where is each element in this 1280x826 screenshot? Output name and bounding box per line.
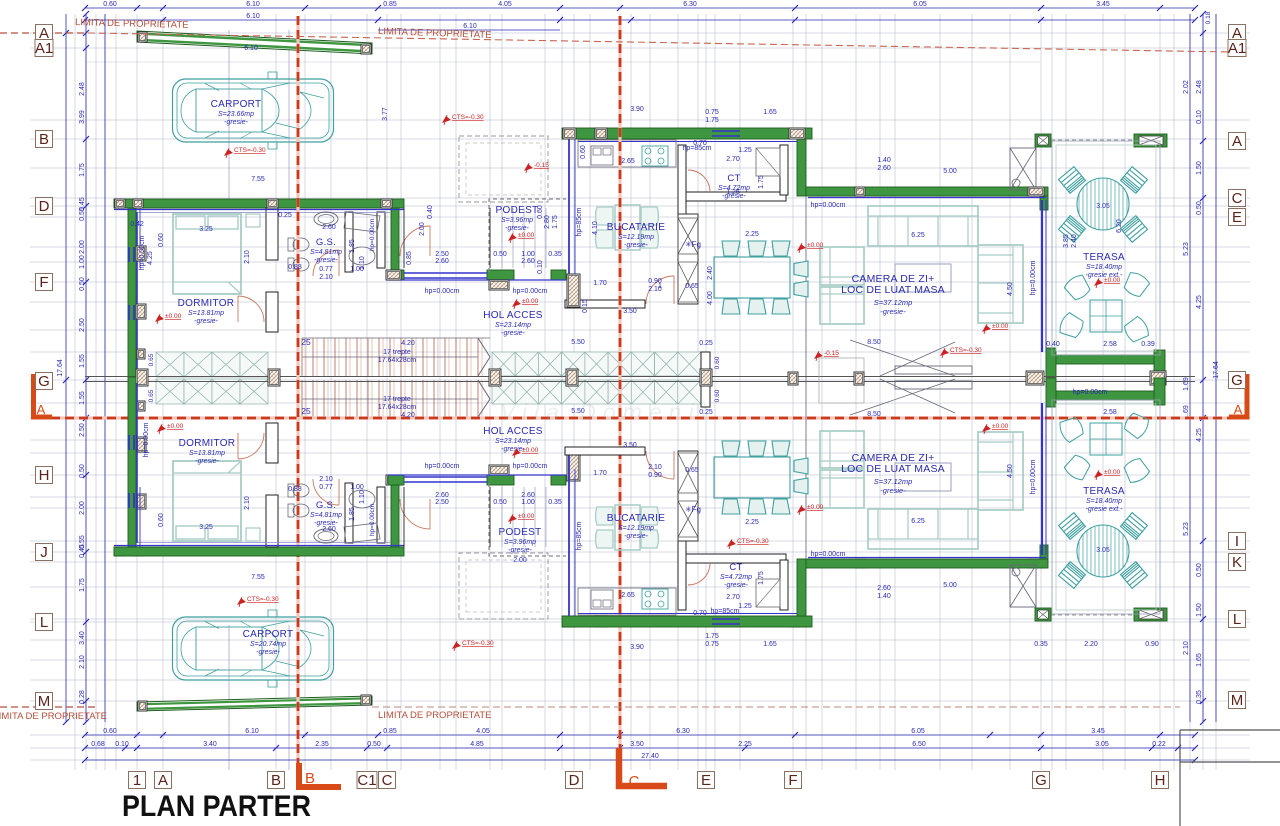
svg-text:0.60: 0.60 bbox=[714, 389, 721, 402]
svg-text:A1: A1 bbox=[35, 40, 53, 57]
svg-text:3.50: 3.50 bbox=[630, 741, 644, 748]
level mark CTS=-0.30 bbox=[224, 149, 233, 156]
svg-text:6.30: 6.30 bbox=[683, 1, 697, 8]
column bbox=[566, 369, 578, 386]
svg-text:F: F bbox=[39, 274, 48, 291]
svg-text:D: D bbox=[39, 198, 50, 215]
svg-text:3.90: 3.90 bbox=[630, 644, 644, 651]
column bbox=[115, 199, 125, 208]
svg-text:4.25: 4.25 bbox=[1196, 295, 1203, 309]
svg-text:2.20: 2.20 bbox=[1084, 641, 1098, 648]
svg-text:2.70: 2.70 bbox=[726, 156, 740, 163]
column bbox=[137, 401, 145, 411]
svg-text:S=20.74mp: S=20.74mp bbox=[250, 641, 286, 648]
dining chairs bbox=[722, 241, 808, 314]
grid letter M bbox=[1229, 692, 1246, 709]
svg-text:±0.00: ±0.00 bbox=[807, 242, 824, 249]
level mark CTS=-0.30 bbox=[452, 642, 461, 649]
grid letter D bbox=[36, 198, 53, 215]
column bbox=[1028, 187, 1044, 196]
stair treads upper bbox=[302, 338, 482, 376]
svg-text:-gresie-: -gresie- bbox=[314, 257, 338, 264]
svg-text:0.60: 0.60 bbox=[158, 513, 165, 527]
svg-text:0.18: 0.18 bbox=[1205, 11, 1212, 24]
sofa right bbox=[978, 245, 1023, 323]
bedroom door arc bbox=[238, 296, 264, 322]
svg-text:hp=0.00cm: hp=0.00cm bbox=[513, 463, 548, 470]
grid letter A1 bbox=[35, 40, 53, 57]
svg-text:4.05: 4.05 bbox=[476, 728, 490, 735]
svg-text:2.60: 2.60 bbox=[322, 224, 336, 231]
svg-text:4.50: 4.50 bbox=[1007, 464, 1014, 478]
svg-text:0.60: 0.60 bbox=[158, 233, 165, 247]
svg-text:CTS=-0.30: CTS=-0.30 bbox=[452, 114, 484, 121]
corridor X strip right lower bbox=[492, 380, 701, 404]
svg-text:1.00: 1.00 bbox=[79, 255, 86, 269]
svg-text:CTS=-0.30: CTS=-0.30 bbox=[247, 596, 279, 603]
column bbox=[115, 547, 125, 556]
svg-text:1.10: 1.10 bbox=[359, 490, 366, 504]
living party light rect bbox=[819, 358, 864, 403]
svg-text:0.55: 0.55 bbox=[79, 207, 86, 221]
level mark -0.15 bbox=[524, 164, 533, 171]
svg-text:LOC DE LUAT MASA: LOC DE LUAT MASA bbox=[841, 284, 945, 296]
svg-text:17 trepte: 17 trepte bbox=[383, 396, 411, 403]
wall left-block right vertical (axis C) bbox=[391, 208, 399, 270]
svg-text:hp=0.00cm: hp=0.00cm bbox=[425, 463, 460, 470]
svg-text:17.64x28cm: 17.64x28cm bbox=[378, 404, 416, 411]
svg-text:1.70: 1.70 bbox=[593, 470, 607, 477]
svg-text:✳Fg: ✳Fg bbox=[685, 240, 701, 249]
column bbox=[381, 547, 392, 556]
grid letter C1 bbox=[357, 772, 377, 789]
nightstand bbox=[246, 214, 260, 227]
column bbox=[268, 369, 280, 386]
svg-text:L: L bbox=[1233, 611, 1241, 628]
gs/hall partition bbox=[345, 212, 353, 272]
svg-text:1.75: 1.75 bbox=[79, 163, 86, 177]
grid letter J bbox=[36, 544, 53, 561]
Fg shaft bbox=[678, 214, 698, 304]
grid letter C bbox=[379, 772, 396, 789]
svg-text:C: C bbox=[629, 773, 640, 790]
bright blue inner face left block bbox=[136, 212, 138, 372]
living left boundary thin bbox=[805, 196, 807, 378]
svg-text:2.10: 2.10 bbox=[79, 655, 86, 669]
svg-text:S=18.40mp: S=18.40mp bbox=[1086, 264, 1122, 271]
svg-text:0.75: 0.75 bbox=[705, 641, 719, 648]
svg-text:1.75: 1.75 bbox=[79, 578, 86, 592]
svg-text:2.00: 2.00 bbox=[79, 501, 86, 515]
grid letter G bbox=[1033, 772, 1050, 789]
svg-text:6.20: 6.20 bbox=[1116, 219, 1123, 233]
orange bracket C bottom bbox=[619, 748, 667, 786]
svg-text:hp=0.00cm: hp=0.00cm bbox=[811, 551, 846, 558]
column bbox=[267, 199, 278, 208]
svg-text:3.05: 3.05 bbox=[1095, 741, 1109, 748]
svg-text:0.70: 0.70 bbox=[693, 140, 707, 147]
orange bracket A right bbox=[1229, 374, 1247, 417]
svg-text:CT: CT bbox=[729, 562, 742, 573]
svg-text:0.85: 0.85 bbox=[383, 728, 397, 735]
svg-text:M: M bbox=[38, 693, 51, 710]
svg-text:hp=0.00cm: hp=0.00cm bbox=[513, 288, 548, 295]
svg-text:0.45: 0.45 bbox=[79, 544, 86, 558]
svg-text:G.S.: G.S. bbox=[316, 237, 336, 248]
svg-text:0.22: 0.22 bbox=[1152, 741, 1166, 748]
svg-text:2.70: 2.70 bbox=[726, 594, 740, 601]
level mark ±0.00 bbox=[982, 325, 991, 332]
grid letter B bbox=[36, 131, 53, 148]
svg-text:C: C bbox=[382, 772, 393, 789]
svg-text:1.75: 1.75 bbox=[758, 571, 765, 585]
column bbox=[386, 270, 401, 280]
level mark ±0.00 bbox=[512, 300, 521, 307]
living wall inner face bbox=[808, 197, 1046, 199]
svg-text:C: C bbox=[1232, 190, 1243, 207]
svg-text:0.50: 0.50 bbox=[1196, 563, 1203, 577]
svg-text:2.10: 2.10 bbox=[1183, 641, 1190, 655]
level mark CTS=-0.30 bbox=[237, 598, 246, 605]
svg-text:hp=0.00cm: hp=0.00cm bbox=[1030, 260, 1037, 295]
svg-text:3.40: 3.40 bbox=[79, 631, 86, 645]
svg-text:2.50: 2.50 bbox=[79, 423, 86, 437]
property limit top bbox=[0, 32, 88, 34]
svg-text:0.42: 0.42 bbox=[130, 221, 144, 228]
svg-text:G: G bbox=[38, 373, 50, 390]
svg-text:0.60: 0.60 bbox=[103, 1, 117, 8]
grid letter L bbox=[36, 614, 53, 631]
svg-text:hp=0.00cm: hp=0.00cm bbox=[1030, 459, 1037, 494]
svg-text:0.15: 0.15 bbox=[582, 299, 589, 313]
coffee table bbox=[895, 264, 951, 292]
exterior step marker terasa bbox=[1010, 148, 1036, 190]
svg-text:5.50: 5.50 bbox=[571, 339, 585, 346]
svg-text:S=13.81mp: S=13.81mp bbox=[189, 450, 225, 457]
svg-text:1: 1 bbox=[658, 283, 662, 290]
svg-text:0.65: 0.65 bbox=[685, 467, 699, 474]
svg-text:S=18.40mp: S=18.40mp bbox=[1086, 498, 1122, 505]
svg-text:S=3.96mp: S=3.96mp bbox=[501, 217, 533, 224]
svg-text:1.65: 1.65 bbox=[763, 641, 777, 648]
svg-text:CARPORT: CARPORT bbox=[243, 629, 294, 640]
column bbox=[381, 199, 392, 208]
dimension lines top bbox=[85, 8, 1195, 30]
svg-text:M: M bbox=[1231, 692, 1244, 709]
svg-text:✳Fg: ✳Fg bbox=[685, 505, 701, 514]
svg-text:2.50: 2.50 bbox=[435, 251, 449, 258]
svg-text:0.60: 0.60 bbox=[103, 728, 117, 735]
level mark -0.15 bbox=[814, 352, 823, 359]
stair break arrow upper bbox=[478, 338, 490, 376]
svg-text:3.25: 3.25 bbox=[199, 524, 213, 531]
grid letter G bbox=[36, 373, 53, 390]
svg-text:±0.00: ±0.00 bbox=[992, 423, 1009, 430]
svg-text:S=12.19mp: S=12.19mp bbox=[618, 525, 654, 532]
svg-text:1.55: 1.55 bbox=[79, 391, 86, 405]
svg-text:-gresie-: -gresie- bbox=[880, 307, 906, 316]
grid letter A bbox=[155, 772, 172, 789]
CT room walls bbox=[678, 145, 686, 214]
kitchen left wall blue bbox=[568, 139, 570, 300]
svg-text:hp=0.00cm: hp=0.00cm bbox=[143, 422, 150, 457]
svg-text:4.10: 4.10 bbox=[592, 221, 599, 235]
svg-text:1.50: 1.50 bbox=[1196, 161, 1203, 175]
svg-text:S=13.81mp: S=13.81mp bbox=[188, 310, 224, 317]
svg-text:0.50: 0.50 bbox=[367, 741, 381, 748]
svg-text:-gresie-: -gresie- bbox=[224, 119, 248, 126]
svg-text:2.40: 2.40 bbox=[1071, 234, 1078, 248]
svg-text:1.75: 1.75 bbox=[705, 117, 719, 124]
svg-text:G: G bbox=[1035, 772, 1047, 789]
svg-text:3.25: 3.25 bbox=[199, 226, 213, 233]
svg-text:6.10: 6.10 bbox=[245, 728, 259, 735]
svg-text:0.60: 0.60 bbox=[714, 356, 721, 369]
svg-text:0.70: 0.70 bbox=[693, 610, 707, 617]
exterior wall left-block top (row D) bbox=[114, 199, 404, 208]
svg-text:6.05: 6.05 bbox=[911, 728, 925, 735]
section line C vertical bbox=[618, 16, 621, 768]
level mark ±0.00 bbox=[512, 449, 521, 456]
svg-text:1.40: 1.40 bbox=[877, 593, 891, 600]
svg-text:E: E bbox=[701, 772, 711, 789]
svg-text:0.25: 0.25 bbox=[699, 340, 713, 347]
svg-text:1.75: 1.75 bbox=[705, 633, 719, 640]
svg-text:0.68: 0.68 bbox=[91, 741, 105, 748]
svg-text:3.99: 3.99 bbox=[79, 110, 86, 124]
dimension column right bbox=[1190, 14, 1216, 722]
grid letter E bbox=[1229, 209, 1246, 226]
svg-text:hp=0.00cm: hp=0.00cm bbox=[139, 235, 146, 270]
terasa corner columns row A bbox=[1035, 134, 1051, 147]
svg-text:4.25: 4.25 bbox=[1196, 428, 1203, 442]
svg-text:-0.15: -0.15 bbox=[534, 162, 549, 169]
svg-text:1: 1 bbox=[133, 772, 141, 789]
column bbox=[386, 475, 401, 485]
svg-text:0.28: 0.28 bbox=[79, 690, 86, 704]
svg-text:0.35: 0.35 bbox=[548, 499, 562, 506]
svg-text:1.00: 1.00 bbox=[521, 499, 535, 506]
car top bbox=[173, 72, 334, 149]
svg-text:H: H bbox=[1155, 772, 1166, 789]
svg-text:6.25: 6.25 bbox=[911, 232, 925, 239]
svg-text:5.23: 5.23 bbox=[1183, 242, 1190, 256]
svg-text:3.45: 3.45 bbox=[1091, 728, 1105, 735]
svg-text:K: K bbox=[1232, 554, 1242, 571]
stair treads lower bbox=[302, 380, 482, 417]
svg-text:3.90: 3.90 bbox=[630, 106, 644, 113]
grid letter H bbox=[1152, 772, 1169, 789]
interior partition dormitor/gs (axis B) bbox=[266, 208, 278, 260]
svg-text:2.58: 2.58 bbox=[1103, 341, 1117, 348]
svg-text:LOC DE LUAT MASA: LOC DE LUAT MASA bbox=[841, 463, 945, 475]
svg-text:0.35: 0.35 bbox=[1196, 690, 1203, 704]
gs toilet 2 bbox=[288, 258, 294, 271]
bed bbox=[173, 214, 241, 294]
svg-text:1.40: 1.40 bbox=[877, 157, 891, 164]
svg-text:2.25: 2.25 bbox=[738, 741, 752, 748]
svg-text:4.20: 4.20 bbox=[401, 340, 415, 347]
terasa chairs bbox=[1059, 167, 1148, 243]
svg-text:8.50: 8.50 bbox=[867, 339, 881, 346]
svg-text:2.60: 2.60 bbox=[877, 585, 891, 592]
column bbox=[567, 448, 580, 481]
svg-text:1.75: 1.75 bbox=[552, 215, 559, 229]
svg-text:2.80: 2.80 bbox=[544, 215, 551, 229]
grid letter F bbox=[785, 772, 802, 789]
svg-text:-gresie-: -gresie- bbox=[624, 242, 648, 249]
svg-text:3.05: 3.05 bbox=[1096, 547, 1110, 554]
section line A-A horizontal bbox=[51, 416, 1230, 419]
svg-text:±0.00: ±0.00 bbox=[522, 298, 539, 305]
svg-text:A: A bbox=[1234, 402, 1243, 417]
svg-text:2.02: 2.02 bbox=[1183, 80, 1190, 94]
bright blue window left wall bbox=[128, 247, 130, 262]
column bbox=[788, 372, 798, 385]
svg-text:3.05: 3.05 bbox=[1096, 203, 1110, 210]
svg-text:-gresie-: -gresie- bbox=[508, 547, 532, 554]
svg-text:LIMITA DE PROPRIETATE: LIMITA DE PROPRIETATE bbox=[378, 710, 492, 721]
level mark CTS=-0.30 bbox=[940, 349, 949, 356]
level mark ±0.00 bbox=[797, 506, 806, 513]
kitchen window in wall bbox=[712, 130, 740, 132]
gs sink bbox=[314, 212, 338, 226]
svg-text:4.00: 4.00 bbox=[707, 291, 714, 305]
terasa lounge set bbox=[1057, 270, 1151, 345]
svg-text:0.88: 0.88 bbox=[288, 486, 302, 493]
column bbox=[789, 128, 805, 139]
svg-text:G: G bbox=[1231, 372, 1243, 389]
column bbox=[563, 128, 576, 139]
svg-text:3.40: 3.40 bbox=[203, 741, 217, 748]
kitchen south wall bbox=[565, 300, 645, 308]
svg-text:0.60: 0.60 bbox=[580, 145, 587, 159]
svg-text:1.70: 1.70 bbox=[593, 280, 607, 287]
column bbox=[133, 199, 143, 208]
level mark ±0.00 bbox=[982, 425, 991, 432]
svg-text:0.90: 0.90 bbox=[648, 472, 662, 479]
svg-text:1.10: 1.10 bbox=[359, 256, 366, 270]
gs shower slanted bbox=[344, 212, 380, 232]
svg-text:0.40: 0.40 bbox=[427, 205, 434, 219]
svg-text:0.65: 0.65 bbox=[685, 283, 699, 290]
svg-text:CT: CT bbox=[727, 173, 740, 184]
svg-text:0.50: 0.50 bbox=[493, 499, 507, 506]
svg-text:0.50: 0.50 bbox=[493, 251, 507, 258]
svg-text:-gresie-: -gresie- bbox=[724, 582, 748, 589]
level mark ±0.00 bbox=[155, 315, 164, 322]
svg-text:8.50: 8.50 bbox=[867, 411, 881, 418]
svg-text:±0.00: ±0.00 bbox=[1104, 277, 1121, 284]
svg-text:4.25: 4.25 bbox=[147, 251, 154, 265]
svg-text:6.05: 6.05 bbox=[913, 1, 927, 8]
svg-text:2.48: 2.48 bbox=[1196, 80, 1203, 94]
terasa bottom wall (row G) bbox=[1048, 355, 1165, 364]
CT door arc bbox=[688, 170, 710, 192]
dimension lines bottom bbox=[85, 735, 1195, 760]
svg-text:0.88: 0.88 bbox=[288, 264, 302, 271]
svg-text:0.77: 0.77 bbox=[319, 266, 333, 273]
svg-text:1.00: 1.00 bbox=[521, 251, 535, 258]
svg-text:hp=0.00cm: hp=0.00cm bbox=[1073, 389, 1108, 396]
svg-text:4.20: 4.20 bbox=[401, 412, 415, 419]
column bbox=[789, 616, 805, 627]
level mark ±0.00 bbox=[797, 244, 806, 251]
svg-text:2.25: 2.25 bbox=[745, 231, 759, 238]
svg-text:A1: A1 bbox=[1228, 40, 1246, 57]
grid letter D bbox=[566, 772, 583, 789]
svg-text:4.85: 4.85 bbox=[470, 741, 484, 748]
svg-text:S=12.19mp: S=12.19mp bbox=[618, 234, 654, 241]
svg-text:HOL ACCES: HOL ACCES bbox=[483, 426, 543, 437]
svg-text:2.60: 2.60 bbox=[521, 258, 535, 265]
svg-text:CARPORT: CARPORT bbox=[211, 99, 262, 110]
svg-text:6.50: 6.50 bbox=[912, 741, 926, 748]
svg-text:4.50: 4.50 bbox=[1007, 282, 1014, 296]
dimension column left bbox=[66, 14, 105, 722]
svg-text:5.23: 5.23 bbox=[1183, 522, 1190, 536]
hall wall (axis C1) bbox=[377, 212, 385, 268]
svg-text:1.75: 1.75 bbox=[758, 175, 765, 189]
column bbox=[133, 547, 143, 556]
grid letter M bbox=[36, 693, 53, 710]
svg-text:S=23.14mp: S=23.14mp bbox=[495, 322, 531, 329]
svg-text:A: A bbox=[158, 772, 168, 789]
svg-text:hp=85cm: hp=85cm bbox=[576, 207, 583, 236]
carport beam bottom bbox=[137, 696, 372, 711]
svg-text:0.60: 0.60 bbox=[537, 205, 544, 219]
svg-text:2.60: 2.60 bbox=[435, 258, 449, 265]
svg-text:±0.00: ±0.00 bbox=[522, 447, 539, 454]
svg-text:±0.00: ±0.00 bbox=[518, 513, 535, 520]
sofa top bbox=[868, 206, 978, 246]
svg-text:0.50: 0.50 bbox=[79, 277, 86, 291]
svg-text:S=4.81mp: S=4.81mp bbox=[310, 512, 342, 519]
svg-text:-gresie-: -gresie- bbox=[505, 225, 529, 232]
grid letter H bbox=[36, 467, 53, 484]
party wall line bbox=[85, 376, 1195, 378]
svg-text:PODEST: PODEST bbox=[496, 205, 539, 216]
svg-text:I: I bbox=[1235, 533, 1239, 550]
column bbox=[267, 547, 278, 556]
grid letter B bbox=[268, 772, 285, 789]
column bbox=[136, 246, 146, 261]
svg-text:S=37.12mp: S=37.12mp bbox=[874, 477, 913, 486]
column bbox=[136, 494, 146, 509]
svg-text:F: F bbox=[788, 772, 797, 789]
grid letter C bbox=[1229, 190, 1246, 207]
svg-text:25: 25 bbox=[301, 406, 311, 416]
entry door arc bbox=[400, 226, 430, 256]
svg-text:6.10: 6.10 bbox=[246, 1, 260, 8]
svg-text:B: B bbox=[305, 770, 315, 787]
column bbox=[595, 128, 607, 139]
svg-text:17.64: 17.64 bbox=[57, 359, 64, 377]
column bbox=[567, 274, 580, 307]
corridor X strip left lower bbox=[156, 379, 268, 404]
svg-text:-gresie-: -gresie- bbox=[194, 318, 218, 325]
svg-text:CTS=-0.30: CTS=-0.30 bbox=[737, 538, 769, 545]
svg-text:2.48: 2.48 bbox=[79, 82, 86, 96]
svg-text:0.25: 0.25 bbox=[278, 212, 292, 219]
svg-text:0.10: 0.10 bbox=[115, 741, 129, 748]
svg-text:DORMITOR: DORMITOR bbox=[178, 298, 235, 309]
level mark ±0.00 bbox=[1094, 471, 1103, 478]
svg-text:2.00: 2.00 bbox=[79, 240, 86, 254]
column bbox=[489, 369, 501, 386]
kitchen chairs bbox=[596, 207, 659, 248]
level mark ±0.00 bbox=[508, 515, 517, 522]
